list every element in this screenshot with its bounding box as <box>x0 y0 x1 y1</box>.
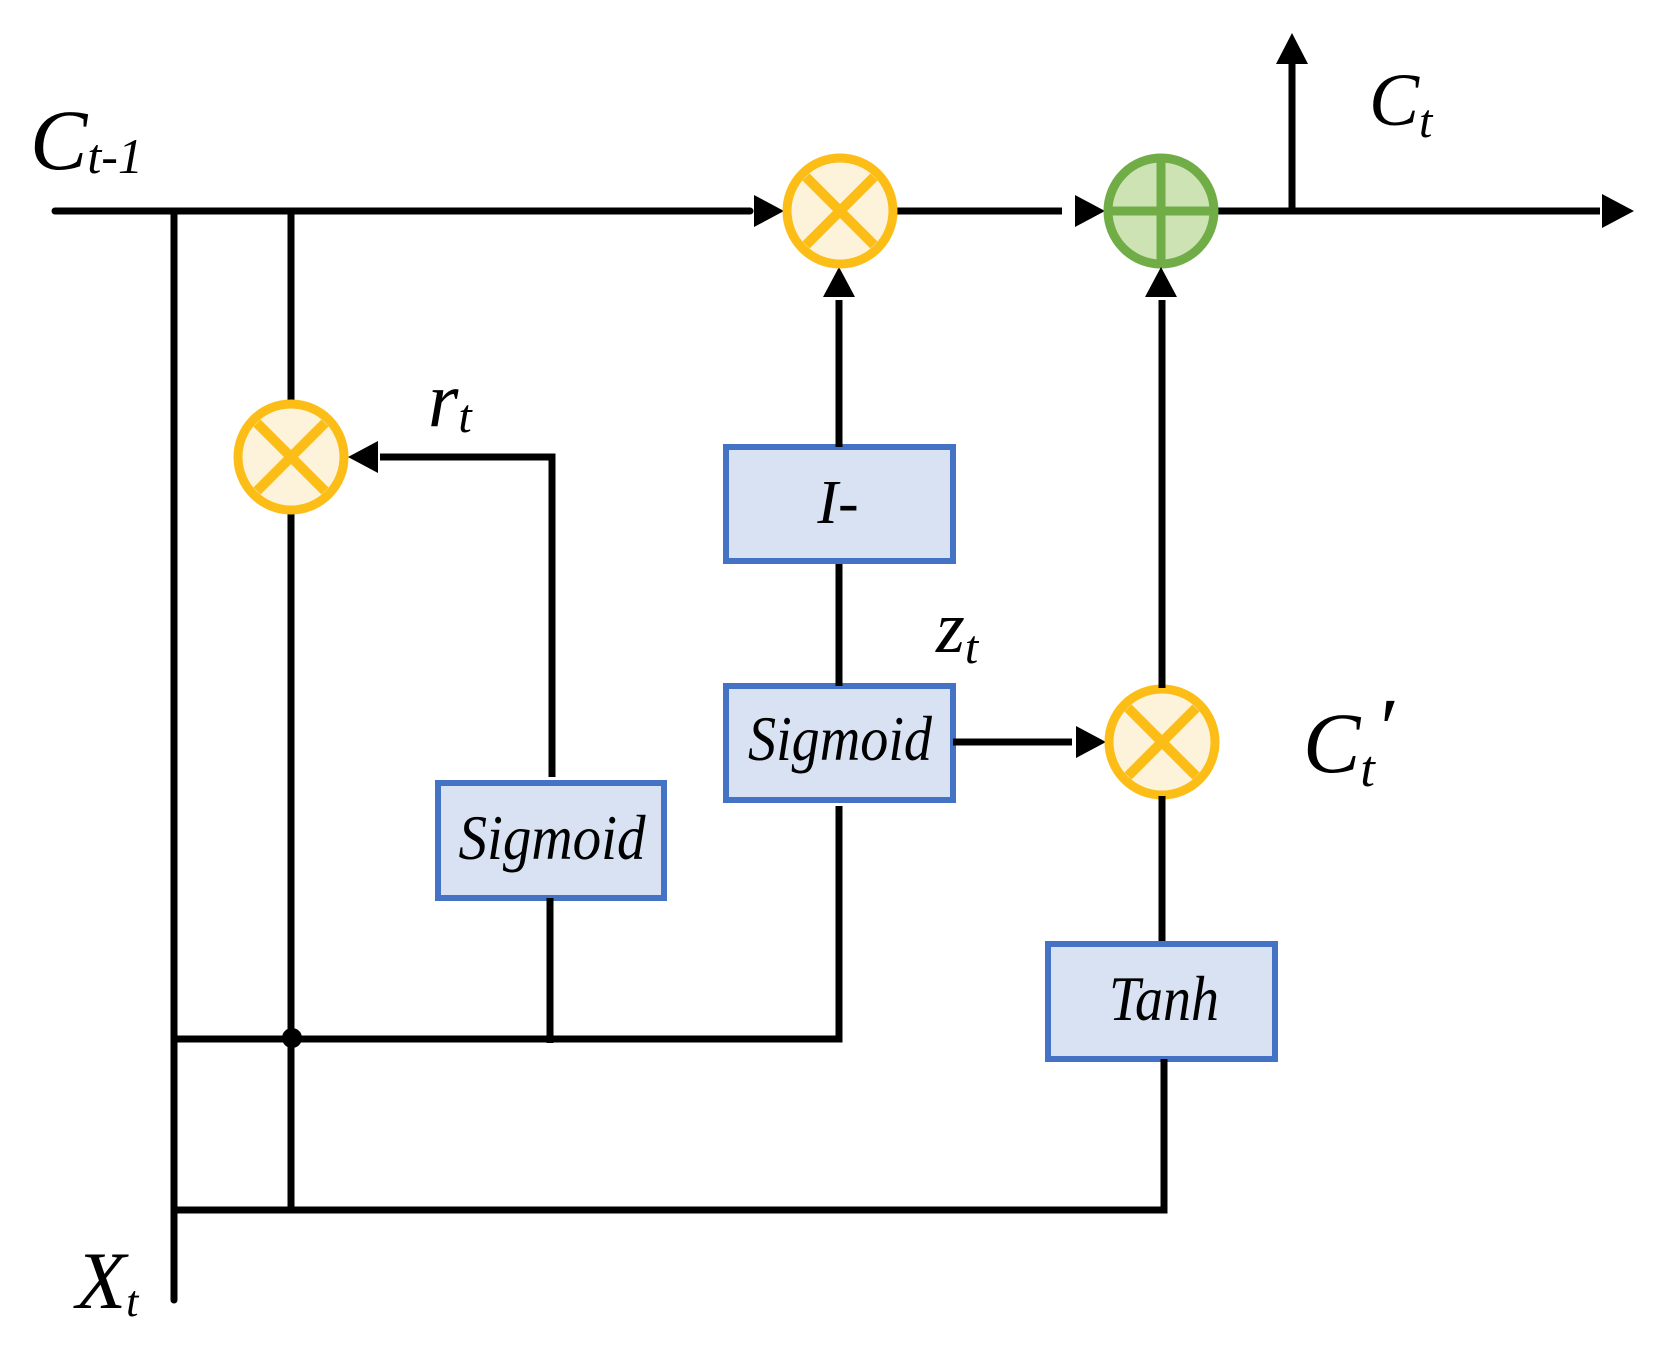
sigmoid box S1 (reset gate) <box>438 783 664 898</box>
wire: bottom X_t wire to tanh <box>174 1059 1164 1210</box>
wire: r_t feedback into multiplier U3 <box>380 457 552 777</box>
junction dot <box>282 1028 302 1048</box>
svg-text:Tanh: Tanh <box>1109 963 1219 1034</box>
arrowhead into adder U2 <box>1075 195 1105 227</box>
multiplier U3 (yellow circle with X) <box>238 404 344 510</box>
svg-text:Ct-1: Ct-1 <box>30 92 143 188</box>
wire: top horizontal C_{t-1} line, left segment <box>55 208 750 215</box>
wire: top horizontal output segment to the right <box>1216 208 1600 215</box>
multiplier U4 (yellow circle with X, right) <box>1109 689 1215 795</box>
wire: from 1- box up to multiplier U1 <box>836 300 843 447</box>
box B1 (1-) <box>726 447 953 561</box>
wire: from tanh box up to multiplier U4 <box>1159 796 1166 944</box>
wire: second vertical from multiplier U3 down to bottom wire <box>288 512 295 1210</box>
svg-text:zt: zt <box>935 587 980 674</box>
svg-text:I-: I- <box>816 469 858 537</box>
arrowhead output C_t right <box>1602 194 1634 228</box>
sigmoid box S2 (update gate z_t) <box>726 686 953 800</box>
wire: lower concat wire (to sigmoid inputs) <box>174 806 839 1039</box>
wire: from sigmoid S2 right to multiplier U4 <box>953 739 1072 746</box>
wire: from sigmoid S1 bottom to concat wire <box>547 898 554 1043</box>
svg-text:rt: rt <box>428 356 473 443</box>
arrowhead into multiplier U4 <box>1076 726 1106 758</box>
multiplier U1 (yellow circle with X, top) <box>787 158 893 264</box>
arrowhead into adder U2 from below <box>1145 267 1177 297</box>
arrowhead into multiplier U3 <box>348 441 378 473</box>
svg-text:Ct: Ct <box>1369 59 1434 148</box>
wire: from multiplier U4 up to adder U2 <box>1159 300 1166 688</box>
tanh box B2 <box>1048 944 1275 1059</box>
wire: from sigmoid S2 up to 1- box <box>836 561 843 686</box>
arrowhead into multiplier U1 from below <box>823 267 855 297</box>
svg-text:Sigmoid: Sigmoid <box>748 703 933 774</box>
arrowhead up C_t <box>1276 33 1308 64</box>
wire: top horizontal between multiplier U1 and adder U2 <box>894 208 1062 215</box>
svg-text:Xt: Xt <box>73 1235 140 1326</box>
svg-text:Ct′: Ct′ <box>1303 680 1395 798</box>
wire: left vertical X_t line <box>171 211 178 1300</box>
wire: second vertical line from top to multiplier U3 <box>288 211 295 402</box>
arrowhead into multiplier U1 <box>754 195 784 227</box>
svg-text:Sigmoid: Sigmoid <box>459 802 647 873</box>
adder U2 (green circle with +) <box>1108 158 1214 264</box>
wire: C_t upward branch <box>1289 62 1296 211</box>
